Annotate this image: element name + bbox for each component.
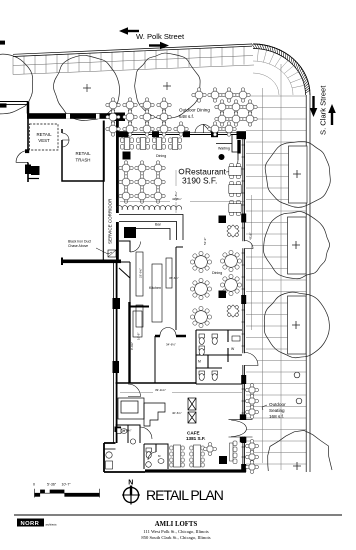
- tree 3 on Clark: [264, 292, 329, 358]
- door cafe patio double: [229, 414, 253, 442]
- west wall column: [113, 361, 120, 373]
- NORR logo: [17, 519, 57, 528]
- street label W. Polk Street: [136, 32, 185, 41]
- column south east: [219, 291, 227, 299]
- svg-text:10'-7": 10'-7": [62, 483, 72, 487]
- sidewalk grid along W. Polk Street: [13, 46, 254, 75]
- svg-text:5'-36": 5'-36": [47, 483, 57, 487]
- tree left partial: [0, 54, 33, 114]
- svg-text:34'-6½": 34'-6½": [166, 343, 176, 347]
- svg-text:52'-9": 52'-9": [203, 238, 207, 245]
- svg-text:40'-6¾": 40'-6¾": [172, 411, 182, 415]
- retail vest room (dashed): [30, 124, 59, 150]
- service corridor label: [108, 198, 113, 244]
- arrow east on Polk: [149, 42, 169, 50]
- column west: [25, 165, 40, 176]
- project title AMLI LOFTS: [141, 521, 210, 541]
- column bar: [124, 227, 136, 238]
- column cafe: [219, 456, 227, 464]
- diamond table east: [223, 221, 243, 241]
- dimension 42-8 mid: [174, 170, 178, 213]
- door west entry: [16, 151, 28, 163]
- svg-text:VEST: VEST: [38, 138, 50, 143]
- svg-text:W: W: [231, 347, 235, 351]
- outdoor seating tables: [246, 384, 259, 474]
- retail trash room: [62, 121, 104, 182]
- svg-text:9'-0¾": 9'-0¾": [130, 342, 134, 350]
- restroom labels: [198, 347, 235, 364]
- svg-text:Outdoor Dining: Outdoor Dining: [179, 108, 210, 113]
- round tables mid west: [119, 175, 166, 204]
- dimension 23-6 kitchen: [139, 268, 143, 278]
- svg-text:NORR: NORR: [21, 521, 40, 527]
- svg-text:39'-11¾": 39'-11¾": [155, 388, 166, 392]
- door kitchen entry: [130, 242, 141, 254]
- column west mid: [113, 298, 121, 309]
- outdoor seating label: [262, 402, 286, 419]
- restroom block walls: [196, 330, 242, 384]
- svg-text:168 s.f.: 168 s.f.: [269, 414, 284, 419]
- cafe east chairs: [230, 441, 238, 464]
- round tables row upper: [119, 161, 166, 176]
- door retail trash double: [62, 133, 69, 147]
- svg-text:9'-6¾": 9'-6¾": [124, 429, 132, 433]
- tables east column: [229, 164, 241, 216]
- party wall west stub: [0, 102, 28, 105]
- cafe long tables: [170, 445, 204, 467]
- cafe label: [186, 431, 205, 442]
- column east mid: [219, 216, 227, 224]
- door restaurant main entry: [195, 125, 212, 134]
- svg-text:23'-6¾": 23'-6¾": [139, 268, 143, 278]
- svg-text:M: M: [198, 360, 201, 364]
- svg-text:Kitchen: Kitchen: [149, 286, 161, 290]
- svg-text:Dining: Dining: [156, 154, 166, 158]
- curb line W. Polk Street: [13, 44, 252, 57]
- service corridor east wall: [116, 121, 119, 262]
- walk-in cooler walls: [130, 302, 150, 383]
- north arrow: [122, 480, 140, 505]
- keynote circle: [179, 169, 184, 174]
- door cafe hall: [128, 384, 141, 397]
- title block rule: [14, 514, 342, 516]
- tree 2 on Clark: [263, 212, 329, 279]
- dimension 40-6: [172, 411, 182, 415]
- title RETAIL PLAN: [146, 487, 223, 503]
- dimension 16-8 kitchen: [137, 333, 141, 340]
- tree B on Polk: [135, 53, 200, 119]
- dining label north: [156, 154, 166, 158]
- svg-text:RETAIL: RETAIL: [75, 151, 91, 156]
- west block north wall: [27, 113, 125, 122]
- bar counter: [119, 215, 183, 241]
- dining label south: [212, 271, 222, 275]
- svg-text:TRASH: TRASH: [76, 158, 91, 163]
- kitchen equipment: [136, 252, 172, 327]
- dimension 39-11: [120, 388, 242, 393]
- outdoor dining label: [179, 108, 210, 120]
- svg-text:Dining: Dining: [212, 271, 222, 275]
- svg-text:W. Polk Street: W. Polk Street: [136, 32, 185, 41]
- cafe north wall corridor: [116, 382, 197, 384]
- outdoor dining tables: [106, 88, 258, 137]
- svg-text:648 s.f.: 648 s.f.: [179, 114, 194, 119]
- kitchen label: [149, 286, 161, 290]
- cafe millwork: [118, 398, 196, 426]
- svg-text:Bar: Bar: [155, 223, 162, 227]
- svg-text:Outdoor: Outdoor: [269, 402, 286, 407]
- scale bar: [33, 483, 100, 498]
- left edge match mark: [0, 41, 7, 108]
- dimension 42-6 top: [120, 197, 244, 202]
- curb corner arc hatched: [252, 44, 311, 96]
- restroom fixtures: [199, 334, 240, 380]
- service corridor west wall: [102, 121, 104, 260]
- svg-text:42'-8": 42'-8": [249, 233, 253, 240]
- sidewalk grid along S. Clark Street: [246, 64, 306, 470]
- stair room sw: [104, 449, 116, 469]
- west block west wall: [25, 102, 29, 183]
- waiting room: [216, 135, 238, 161]
- svg-text:42'-8¼": 42'-8¼": [174, 191, 178, 201]
- sidewalk corner fan at Polk/Clark: [253, 49, 304, 95]
- dimension 52-9: [203, 238, 207, 245]
- cafe west wall: [104, 383, 145, 472]
- svg-text:Waiting: Waiting: [218, 147, 230, 151]
- svg-text:3190 S.F.: 3190 S.F.: [182, 176, 217, 186]
- restaurant east wall on Clark: [241, 133, 247, 472]
- svg-text:CAFE: CAFE: [187, 431, 200, 436]
- tree 4 on Clark partial: [268, 430, 332, 471]
- door cafe wc: [140, 427, 156, 460]
- svg-text:N: N: [128, 480, 133, 487]
- svg-text:M: M: [158, 454, 161, 458]
- dimension 34-6 mid: [169, 276, 179, 280]
- dimension 9-0: [130, 342, 134, 350]
- svg-text:RETAIL PLAN: RETAIL PLAN: [146, 487, 223, 503]
- party wall mid thick: [61, 258, 121, 266]
- svg-text:16'-8": 16'-8": [137, 333, 141, 340]
- svg-text:SERVICE CORRIDOR: SERVICE CORRIDOR: [108, 198, 113, 244]
- arrow west on Polk: [119, 27, 139, 35]
- svg-text:RETAIL: RETAIL: [36, 132, 52, 137]
- wall below vest: [28, 178, 39, 180]
- cafe wc rooms: [116, 425, 169, 469]
- bollard 2: [296, 398, 302, 404]
- cafe round table: [204, 443, 217, 456]
- column waiting: [219, 140, 241, 160]
- dining tables south: [190, 250, 241, 327]
- svg-text:architects: architects: [46, 523, 58, 527]
- arrow north on Clark: [328, 104, 336, 125]
- svg-text:AMLI LOFTS: AMLI LOFTS: [155, 521, 198, 528]
- svg-text:111 West Polk St., Chicago, Il: 111 West Polk St., Chicago, Illinois: [143, 529, 209, 535]
- restaurant storefront north: [119, 131, 247, 139]
- column restaurant nw: [123, 152, 131, 160]
- svg-text:1381 S.F.: 1381 S.F.: [186, 436, 205, 441]
- black iron duct note: [68, 240, 116, 258]
- booth row north: [121, 138, 182, 150]
- svg-text:Chase Above: Chase Above: [68, 244, 88, 248]
- kitchen walls: [119, 241, 183, 375]
- arrow south on Clark: [310, 96, 318, 117]
- bollard 1: [294, 372, 300, 378]
- dimension 42-8 east: [249, 195, 253, 330]
- bar stools: [117, 206, 182, 210]
- door restaurant side exit: [245, 241, 253, 249]
- svg-text:Black Iron Duct: Black Iron Duct: [68, 240, 91, 244]
- cafe wc fixtures: [115, 427, 122, 433]
- street label S. Clark Street (vertical): [319, 85, 328, 135]
- dimension 10-6 cafe: [124, 429, 132, 433]
- cafe wc labels: [122, 429, 161, 458]
- svg-text:0: 0: [33, 483, 35, 487]
- svg-text:850 South Clark St., Chicago,: 850 South Clark St., Chicago, Illinois: [141, 535, 210, 541]
- tree A on Polk: [53, 55, 119, 120]
- svg-text:36'-6¾": 36'-6¾": [169, 276, 179, 280]
- west exterior wall lower: [114, 263, 117, 383]
- kitchen south wall and opening: [155, 328, 186, 384]
- tree 1 on Clark: [265, 141, 330, 207]
- curb line S. Clark Street: [306, 95, 310, 472]
- svg-text:Seating: Seating: [269, 408, 285, 413]
- cafe south wall: [145, 469, 246, 472]
- door restaurant south entry: [245, 353, 258, 366]
- door waiting: [226, 160, 238, 172]
- diamond table south east: [223, 301, 243, 321]
- restaurant label: [182, 167, 227, 186]
- svg-text:S. Clark Street: S. Clark Street: [319, 85, 328, 135]
